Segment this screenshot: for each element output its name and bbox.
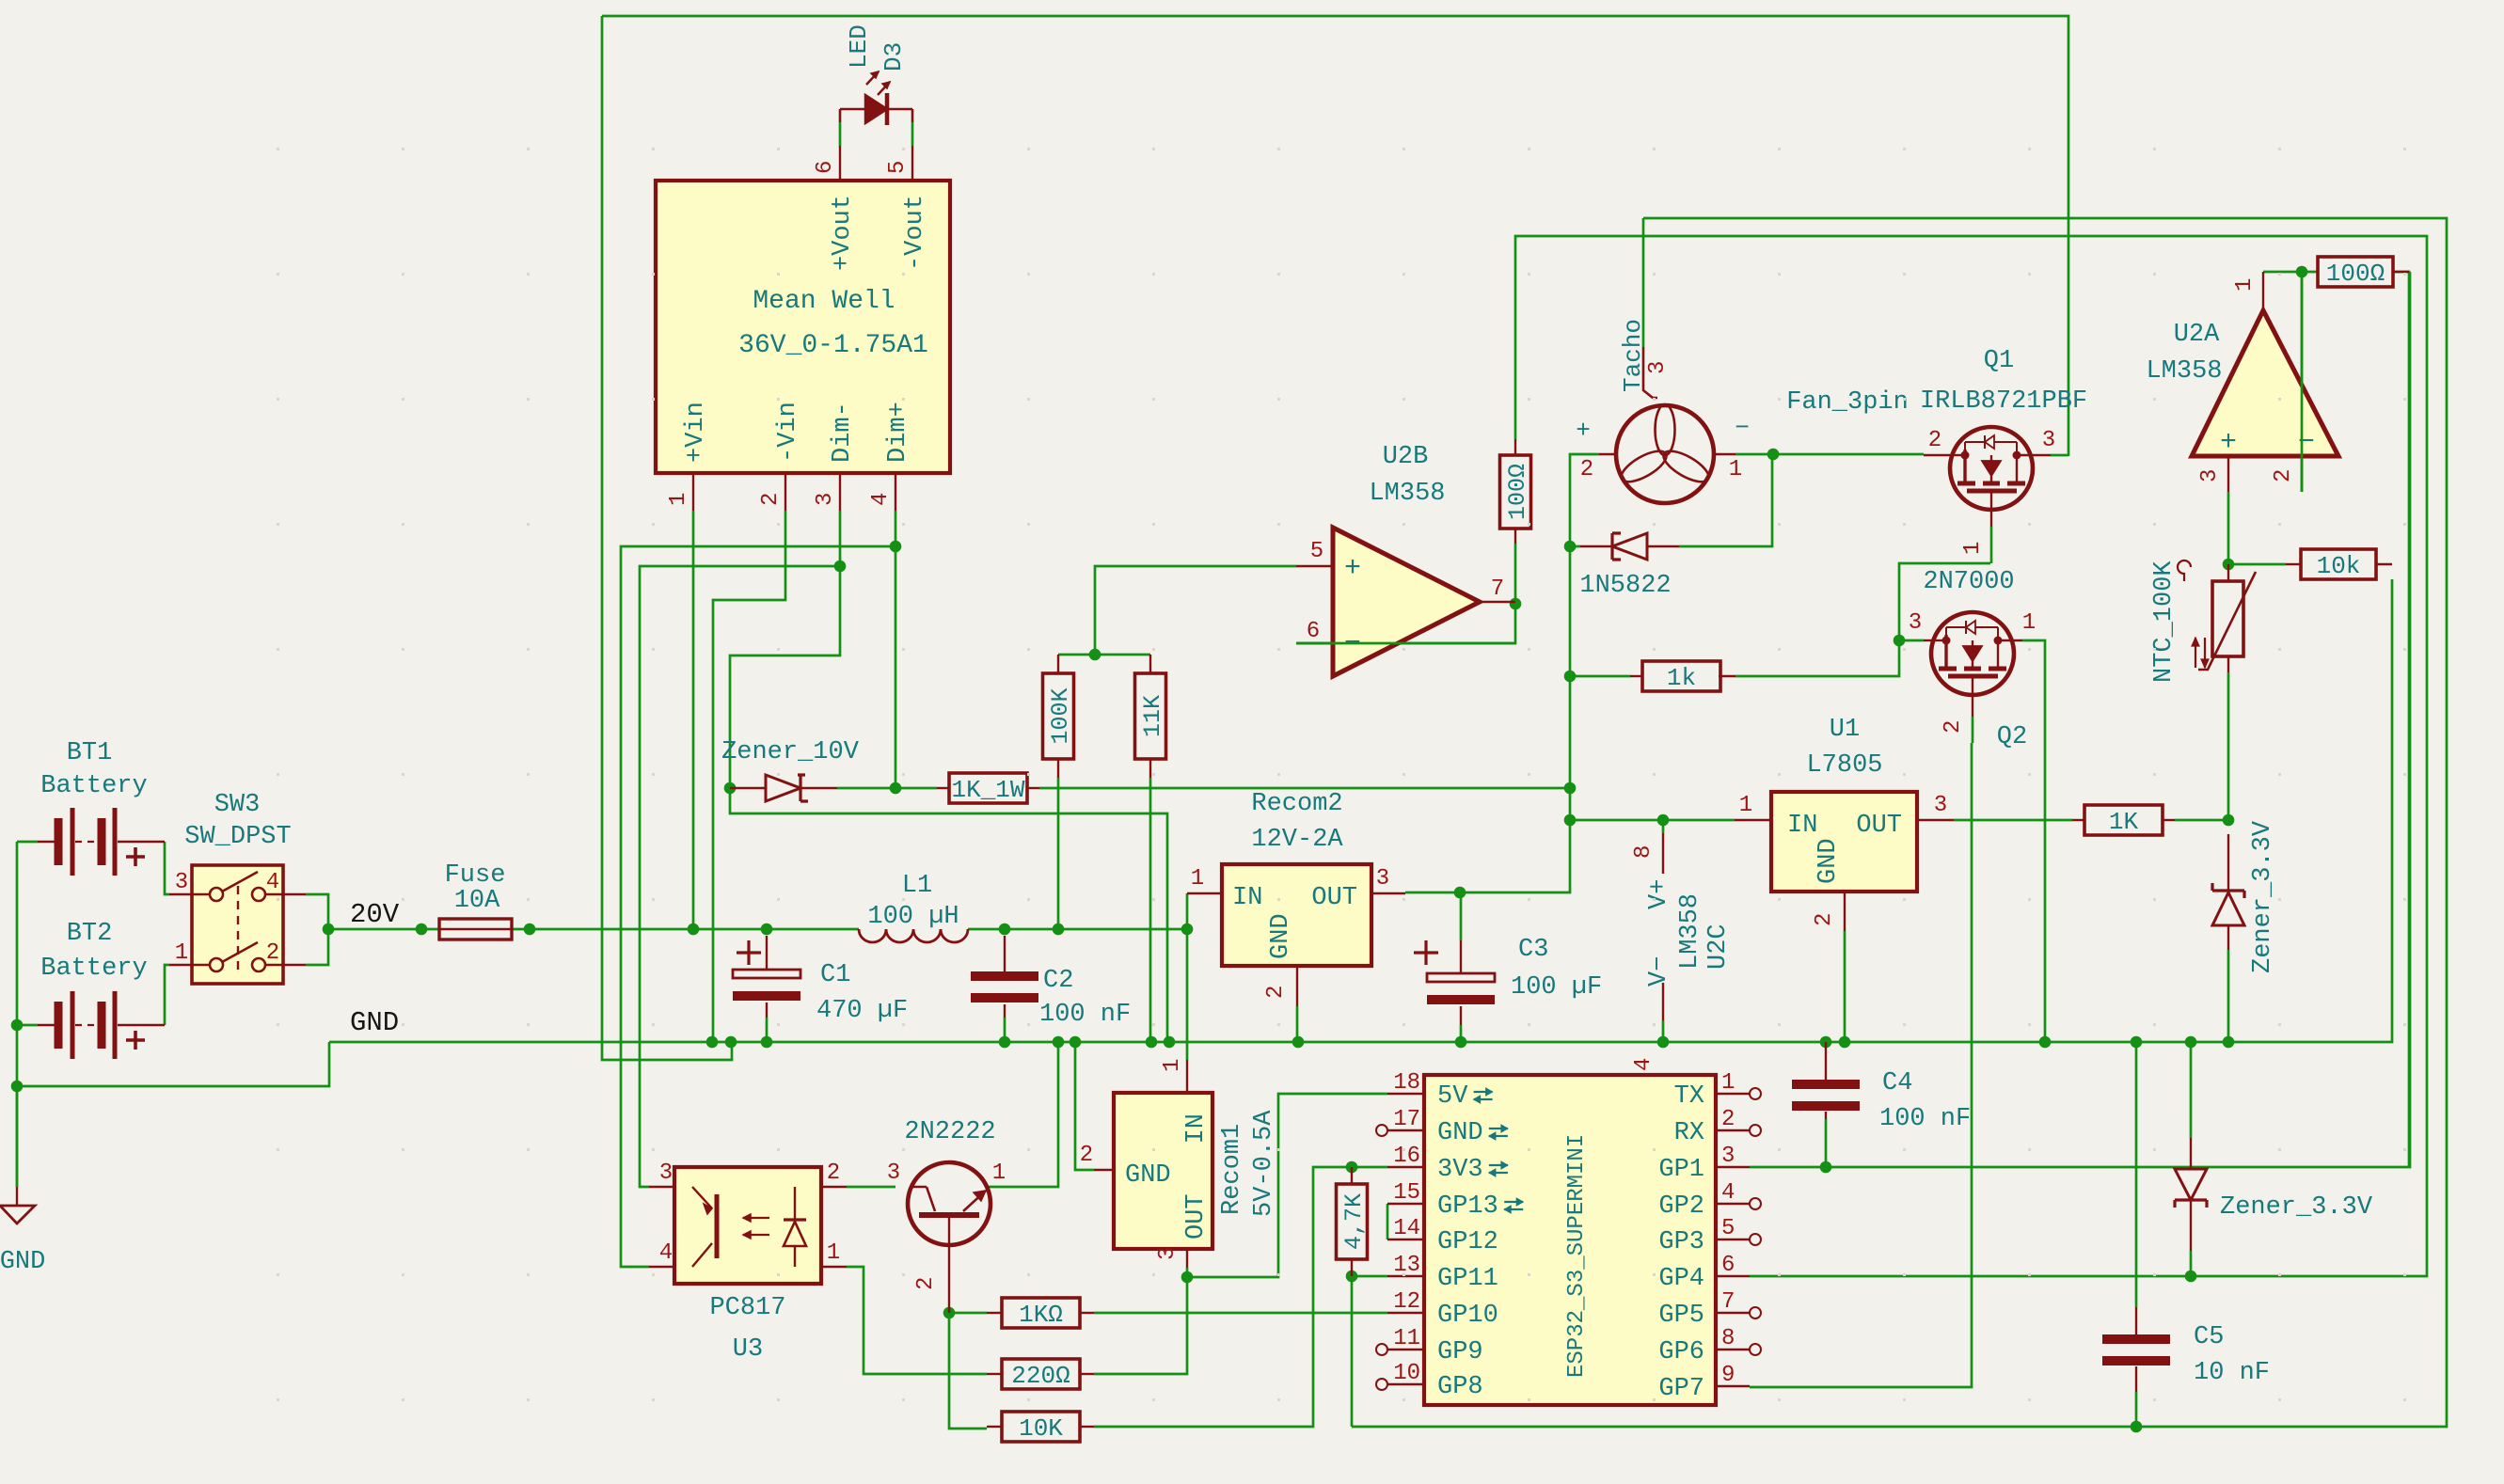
junction dots misc bbox=[11, 1019, 24, 1032]
svg-text:2: 2 bbox=[1580, 457, 1593, 482]
svg-text:4: 4 bbox=[659, 1240, 673, 1266]
resistor 1K_1W bbox=[937, 787, 949, 789]
capacitor C5 10nF bbox=[2135, 1307, 2137, 1339]
svg-text:16: 16 bbox=[1393, 1144, 1420, 1169]
svg-text:100Ω: 100Ω bbox=[1504, 464, 1531, 520]
wire U2A pin3 to NTC node bbox=[2227, 492, 2230, 564]
svg-text:Dim+: Dim+ bbox=[884, 402, 912, 463]
transistor Q2 2N7000 bbox=[1931, 612, 2014, 695]
DC-DC Recom2 12V-2A bbox=[1222, 864, 1371, 966]
svg-text:GND: GND bbox=[0, 1248, 45, 1276]
svg-text:220Ω: 220Ω bbox=[1011, 1362, 1070, 1390]
svg-text:Q2: Q2 bbox=[1997, 723, 2027, 751]
svg-text:12: 12 bbox=[1393, 1289, 1420, 1315]
svg-text:Zener_3.3V: Zener_3.3V bbox=[2220, 1193, 2373, 1222]
svg-text:GP13: GP13 bbox=[1437, 1192, 1498, 1221]
svg-text:9: 9 bbox=[1721, 1363, 1735, 1388]
svg-text:IRLB8721PBF: IRLB8721PBF bbox=[1920, 387, 2087, 416]
svg-text:10k: 10k bbox=[2317, 552, 2361, 580]
resistor 11K vertical bbox=[1149, 655, 1151, 673]
svg-text:7: 7 bbox=[1491, 576, 1504, 602]
svg-text:10A: 10A bbox=[454, 887, 500, 915]
wire U2B feedback overlay bbox=[1296, 642, 1515, 645]
wire switch to 20V node bbox=[306, 894, 328, 929]
wire BT1 to switch bbox=[17, 841, 38, 844]
wire zener3.3V #2 from GND bbox=[2190, 1042, 2193, 1138]
svg-text:3: 3 bbox=[887, 1160, 900, 1186]
wire Recom1 GND riser bbox=[1075, 1042, 1094, 1170]
DC-DC Recom1 5V-0.5A bbox=[1114, 1093, 1212, 1249]
wire C3 bottom bbox=[1460, 1025, 1463, 1042]
svg-text:ESP32_S3_SUPERMINI: ESP32_S3_SUPERMINI bbox=[1564, 1134, 1590, 1378]
svg-text:13: 13 bbox=[1393, 1253, 1420, 1278]
svg-text:U2C: U2C bbox=[1704, 924, 1733, 970]
svg-text:4: 4 bbox=[1721, 1180, 1735, 1206]
svg-text:6: 6 bbox=[1721, 1253, 1735, 1278]
voltage regulator U1 L7805 bbox=[1771, 792, 1917, 892]
svg-text:LM358: LM358 bbox=[2146, 357, 2222, 386]
svg-text:Tacho: Tacho bbox=[1619, 319, 1647, 392]
wire 1K_1W out to 12V rail bbox=[1039, 787, 1570, 790]
svg-text:8: 8 bbox=[1721, 1326, 1735, 1351]
svg-text:D3: D3 bbox=[880, 42, 908, 71]
svg-text:15: 15 bbox=[1393, 1180, 1420, 1206]
svg-text:4: 4 bbox=[266, 870, 279, 895]
svg-text:+Vin: +Vin bbox=[682, 402, 710, 463]
svg-text:3V3: 3V3 bbox=[1437, 1156, 1483, 1184]
optocoupler U3 PC817 bbox=[674, 1167, 821, 1284]
svg-text:Mean Well: Mean Well bbox=[753, 287, 895, 316]
svg-text:Zener_3.3V: Zener_3.3V bbox=[2249, 820, 2277, 973]
svg-text:100K: 100K bbox=[1047, 687, 1074, 744]
svg-text:3: 3 bbox=[2197, 469, 2223, 482]
svg-text:L1: L1 bbox=[902, 872, 932, 900]
svg-text:100 µF: 100 µF bbox=[1511, 973, 1602, 1002]
resistor 100K vertical bbox=[1057, 655, 1059, 673]
wire BT2 to switch bbox=[17, 1024, 38, 1027]
wire U2C V- stub bbox=[1662, 1020, 1665, 1042]
svg-text:2N7000: 2N7000 bbox=[1923, 568, 2014, 596]
svg-text:+: + bbox=[1576, 417, 1591, 445]
svg-text:GND: GND bbox=[1437, 1119, 1483, 1147]
svg-text:5: 5 bbox=[1721, 1216, 1735, 1241]
fan Fan_3pin bbox=[1616, 405, 1714, 503]
svg-text:14: 14 bbox=[1393, 1216, 1420, 1241]
wire NTC bottom node bbox=[2227, 672, 2230, 820]
wire NTC node to 10k bbox=[2228, 563, 2286, 566]
resistor 100 ohm U2B output vertical bbox=[1514, 529, 1516, 544]
wire 11K bottom to GND bbox=[1149, 778, 1152, 1042]
svg-text:2N2222: 2N2222 bbox=[904, 1118, 995, 1146]
svg-text:3: 3 bbox=[1934, 793, 1947, 818]
svg-text:PC817: PC817 bbox=[709, 1294, 785, 1322]
svg-text:U3: U3 bbox=[733, 1335, 763, 1364]
svg-text:GP12: GP12 bbox=[1437, 1228, 1498, 1256]
svg-text:-Vout: -Vout bbox=[901, 195, 929, 271]
svg-text:LM358: LM358 bbox=[1676, 893, 1704, 970]
svg-text:5: 5 bbox=[885, 161, 911, 174]
svg-text:2: 2 bbox=[913, 1277, 939, 1290]
zener diode Zener_10V bbox=[730, 787, 766, 790]
svg-text:BT2: BT2 bbox=[67, 920, 113, 948]
svg-text:1: 1 bbox=[1960, 542, 1986, 555]
svg-text:1K_1W: 1K_1W bbox=[951, 776, 1024, 804]
svg-text:GP11: GP11 bbox=[1437, 1265, 1498, 1293]
svg-text:GND: GND bbox=[1815, 838, 1843, 884]
svg-text:1: 1 bbox=[1739, 793, 1752, 818]
wire PC817 pin1 to 220ohm bbox=[847, 1267, 987, 1374]
battery BT2 bbox=[38, 1024, 55, 1027]
wire GND symbol stem bbox=[16, 1086, 19, 1187]
wire U2C V+ stub bbox=[1662, 820, 1665, 833]
wire PC817 pin2 to 2N2222 base... collector bbox=[847, 1186, 895, 1189]
svg-text:1N5822: 1N5822 bbox=[1579, 572, 1671, 600]
resistor 1k bbox=[1642, 661, 1720, 691]
svg-text:3: 3 bbox=[1721, 1144, 1735, 1169]
svg-text:TX: TX bbox=[1674, 1082, 1704, 1111]
svg-text:1: 1 bbox=[1721, 1070, 1735, 1096]
wire U2A feedback through symbol to pin2 bbox=[2301, 272, 2304, 492]
switch SW3 SW_DPST bbox=[192, 865, 283, 984]
resistor 1Kohm bbox=[987, 1312, 1002, 1314]
svg-text:3: 3 bbox=[1645, 361, 1671, 374]
wire 1k gate resistor net bbox=[1570, 675, 1630, 678]
wire 1N5822 cathode riser bbox=[1679, 454, 1772, 546]
wire 2N2222 emitter to GND riser bbox=[990, 1042, 1058, 1187]
svg-text:10: 10 bbox=[1393, 1361, 1420, 1386]
svg-text:GP4: GP4 bbox=[1658, 1265, 1704, 1293]
svg-text:3: 3 bbox=[2042, 428, 2055, 453]
svg-text:1K: 1K bbox=[2109, 808, 2139, 836]
svg-text:18: 18 bbox=[1393, 1070, 1420, 1096]
op-amp U2B LM358 bbox=[1333, 528, 1480, 676]
svg-text:100 µH: 100 µH bbox=[867, 903, 959, 931]
svg-text:6: 6 bbox=[813, 161, 838, 174]
svg-text:V−: V− bbox=[1645, 956, 1673, 987]
wire 100K bottom to 20V bbox=[1057, 778, 1060, 929]
svg-text:GP10: GP10 bbox=[1437, 1302, 1498, 1330]
wire C5 from GND bbox=[2135, 1042, 2138, 1307]
svg-text:NTC_100K: NTC_100K bbox=[2150, 560, 2179, 683]
svg-text:1: 1 bbox=[1729, 457, 1742, 482]
wire fan- junction to Q1 gate bbox=[1735, 453, 1924, 456]
svg-text:7: 7 bbox=[1721, 1289, 1735, 1315]
wire GP1 net bbox=[1750, 272, 2410, 1167]
svg-text:C1: C1 bbox=[820, 961, 850, 989]
wire Recom2 GND down bbox=[1296, 1006, 1299, 1042]
svg-text:GP2: GP2 bbox=[1658, 1192, 1704, 1221]
wire Q2 source down to GP7 bbox=[1750, 743, 1972, 1387]
svg-text:2: 2 bbox=[2271, 469, 2296, 482]
LED D3 bbox=[839, 109, 842, 122]
wire C4 bottom bbox=[1825, 1119, 1828, 1167]
svg-text:IN: IN bbox=[1787, 812, 1817, 840]
svg-text:1: 1 bbox=[175, 940, 188, 966]
wire 1N5822 anode lead bbox=[1570, 545, 1580, 548]
svg-text:1KΩ: 1KΩ bbox=[1019, 1301, 1063, 1329]
wire battery left vertical bbox=[16, 842, 19, 1187]
wire zener10V anode to GND return bbox=[730, 788, 1167, 1042]
thermistor NTC_100K bbox=[2212, 581, 2243, 656]
capacitor C1 470uF bbox=[766, 936, 768, 970]
svg-text:2: 2 bbox=[1928, 428, 1941, 453]
svg-text:2: 2 bbox=[1941, 720, 1966, 734]
svg-text:V+: V+ bbox=[1645, 879, 1673, 909]
wire 5V node to ESP32 pin18 bbox=[1187, 1094, 1387, 1277]
schottky diode 1N5822 bbox=[1612, 533, 1621, 560]
svg-text:1k: 1k bbox=[1667, 664, 1696, 692]
svg-text:1: 1 bbox=[1160, 1059, 1185, 1072]
wire fan+ to 12V rail bbox=[1405, 454, 1599, 892]
svg-text:OUT: OUT bbox=[1311, 884, 1357, 912]
svg-text:8: 8 bbox=[1631, 845, 1656, 859]
svg-text:L7805: L7805 bbox=[1806, 751, 1882, 780]
svg-text:10 nF: 10 nF bbox=[2194, 1359, 2270, 1387]
svg-text:IN: IN bbox=[1232, 884, 1262, 912]
svg-text:3: 3 bbox=[175, 870, 188, 895]
resistor 100 ohm U2A bbox=[2318, 257, 2393, 287]
wire U2B out 100ohm to GP4 riser bbox=[1515, 236, 2427, 1276]
svg-text:GP1: GP1 bbox=[1658, 1156, 1704, 1184]
wire Q2 drain right down to GND bbox=[2022, 640, 2045, 1042]
wire U2B feedback bbox=[1296, 604, 1515, 643]
svg-text:5: 5 bbox=[1310, 539, 1323, 564]
svg-text:U2A: U2A bbox=[2174, 321, 2220, 349]
svg-text:GND: GND bbox=[1267, 913, 1295, 959]
ESP32_S3_SUPERMINI module bbox=[1424, 1075, 1716, 1405]
wire 3V3 to pin16 bbox=[1352, 1166, 1387, 1169]
ground symbol GND bbox=[16, 1187, 18, 1206]
fuse 10A bbox=[421, 928, 439, 931]
svg-text:IN: IN bbox=[1182, 1113, 1211, 1144]
resistor 1K to NTC bbox=[2072, 819, 2084, 821]
svg-text:RX: RX bbox=[1674, 1119, 1704, 1147]
svg-text:2: 2 bbox=[827, 1160, 840, 1186]
wire top border net: Q1 source loop bbox=[602, 16, 2068, 456]
wire 20V bus bbox=[530, 928, 859, 931]
capacitor C2 100nF bbox=[1004, 936, 1006, 976]
wire 100ohm U2A to GP1 riser bbox=[2393, 272, 2409, 1167]
svg-text:Battery: Battery bbox=[40, 772, 147, 800]
svg-text:1: 1 bbox=[1191, 866, 1204, 892]
svg-text:1: 1 bbox=[992, 1160, 1006, 1186]
svg-text:11: 11 bbox=[1393, 1326, 1420, 1351]
svg-text:2: 2 bbox=[1080, 1143, 1093, 1168]
svg-text:Zener_10V: Zener_10V bbox=[721, 738, 860, 766]
svg-text:3: 3 bbox=[1376, 866, 1389, 892]
svg-text:4: 4 bbox=[1631, 1058, 1656, 1071]
wire Q2 gate stub link bbox=[1899, 639, 1924, 642]
svg-text:6: 6 bbox=[1307, 619, 1320, 644]
svg-text:C3: C3 bbox=[1518, 936, 1548, 964]
svg-text:100Ω: 100Ω bbox=[2326, 260, 2385, 288]
svg-text:Dim-: Dim- bbox=[829, 402, 857, 463]
wire MW pin1 +Vin down bbox=[692, 511, 695, 929]
inductor L1 100uH bbox=[859, 929, 968, 942]
svg-text:Recom2: Recom2 bbox=[1251, 790, 1342, 818]
svg-text:20V: 20V bbox=[350, 899, 400, 930]
battery BT1 bbox=[38, 841, 55, 844]
capacitor C3 100uF bbox=[1460, 940, 1462, 973]
svg-text:4: 4 bbox=[868, 493, 894, 506]
svg-text:36V_0-1.75A1: 36V_0-1.75A1 bbox=[738, 331, 928, 360]
wire L7805 gnd down bbox=[1844, 931, 1846, 1042]
svg-text:1: 1 bbox=[827, 1240, 840, 1266]
svg-text:OUT: OUT bbox=[1856, 812, 1902, 840]
svg-text:GND: GND bbox=[1125, 1161, 1171, 1190]
svg-text:3: 3 bbox=[659, 1160, 673, 1186]
wire tacho to GP11 riser bbox=[1352, 218, 2447, 1427]
svg-text:GP7: GP7 bbox=[1658, 1375, 1704, 1403]
svg-text:SW3: SW3 bbox=[214, 791, 261, 819]
svg-text:−: − bbox=[1735, 414, 1750, 442]
resistor 10k NTC divider bbox=[2301, 549, 2376, 579]
wire U2A output node bbox=[2263, 271, 2318, 274]
svg-text:2: 2 bbox=[266, 940, 279, 966]
resistor 10K bbox=[987, 1426, 1002, 1428]
svg-text:C2: C2 bbox=[1043, 967, 1073, 995]
svg-text:2: 2 bbox=[758, 493, 784, 506]
svg-text:1: 1 bbox=[666, 493, 691, 506]
wire 1Kohm right to GP10 bbox=[1094, 1312, 1387, 1315]
wire MW pin2 -Vin down bbox=[713, 511, 785, 1042]
svg-text:SW_DPST: SW_DPST bbox=[184, 823, 291, 851]
capacitor C4 100nF bbox=[1825, 1042, 1827, 1083]
svg-text:Recom1: Recom1 bbox=[1218, 1124, 1246, 1215]
resistor 220ohm bbox=[987, 1373, 1002, 1375]
wire GP13-GP12 jumper bbox=[1387, 1204, 1389, 1239]
wire GND bus bbox=[329, 579, 2392, 1042]
svg-text:GND: GND bbox=[350, 1007, 399, 1038]
svg-text:GP3: GP3 bbox=[1658, 1228, 1704, 1256]
svg-text:LED: LED bbox=[845, 24, 873, 69]
svg-text:Fuse: Fuse bbox=[445, 861, 506, 890]
svg-text:GP9: GP9 bbox=[1437, 1338, 1483, 1366]
op-amp power pins U2C LM358 bbox=[1662, 833, 1664, 874]
wire 4.7K bottom node to GP11 bbox=[1352, 1275, 1387, 1278]
svg-text:GP5: GP5 bbox=[1658, 1302, 1704, 1330]
svg-text:Q1: Q1 bbox=[1984, 347, 2014, 375]
wire U2A feedback overlay bbox=[2301, 272, 2304, 492]
junction dots 20V bus bbox=[524, 924, 536, 936]
svg-text:Fan_3pin: Fan_3pin bbox=[1786, 388, 1909, 417]
svg-text:17: 17 bbox=[1393, 1107, 1420, 1132]
svg-text:3: 3 bbox=[813, 493, 838, 506]
svg-text:12V-2A: 12V-2A bbox=[1251, 826, 1343, 854]
svg-text:Battery: Battery bbox=[40, 955, 147, 983]
svg-text:4,7K: 4,7K bbox=[1340, 1193, 1368, 1250]
svg-text:10K: 10K bbox=[1019, 1414, 1063, 1443]
wire 2N2222 base node to 1Kohm and 10K bbox=[949, 1312, 987, 1315]
zener diode Zener_3.3V on 5V bbox=[2227, 834, 2229, 891]
op-amp U2A LM358 bbox=[2192, 310, 2338, 456]
wire MW pin4 Dim+ down bbox=[621, 511, 895, 1267]
svg-text:OUT: OUT bbox=[1182, 1193, 1211, 1239]
svg-text:100 nF: 100 nF bbox=[1879, 1105, 1971, 1133]
svg-text:100 nF: 100 nF bbox=[1039, 1001, 1131, 1029]
svg-text:+: + bbox=[2220, 427, 2237, 459]
wire MW pin3 Dim- down bbox=[640, 511, 840, 1187]
svg-text:11K: 11K bbox=[1139, 695, 1166, 737]
wire zener3.3V #1 leads bbox=[2227, 950, 2230, 1042]
zener diode Zener_3.3V on GP4 bbox=[2190, 1138, 2192, 1169]
svg-text:2: 2 bbox=[1812, 913, 1837, 926]
svg-text:+: + bbox=[1344, 553, 1361, 585]
Mean Well 36V LED driver block bbox=[656, 181, 950, 473]
wire 12V to L7805 IN bbox=[1570, 819, 1735, 822]
grid dots bbox=[277, 148, 279, 150]
svg-text:1: 1 bbox=[2232, 278, 2258, 292]
svg-text:3: 3 bbox=[1909, 610, 1922, 636]
svg-text:-Vin: -Vin bbox=[774, 402, 802, 463]
svg-text:GP8: GP8 bbox=[1437, 1373, 1483, 1401]
svg-text:BT1: BT1 bbox=[67, 739, 113, 767]
svg-text:470 µF: 470 µF bbox=[816, 997, 908, 1025]
svg-text:1: 1 bbox=[2022, 610, 2036, 636]
svg-text:2: 2 bbox=[1721, 1107, 1735, 1132]
wire 220ohm right to 5V node bbox=[1094, 1277, 1187, 1374]
svg-text:LM358: LM358 bbox=[1369, 480, 1445, 508]
transistor Q1 IRLB8721PBF bbox=[1950, 427, 2033, 510]
svg-text:5V: 5V bbox=[1437, 1082, 1468, 1111]
svg-text:+Vout: +Vout bbox=[829, 195, 857, 271]
wire C3 top bbox=[1460, 892, 1463, 940]
wire divider 100K/11K top link bbox=[1058, 654, 1150, 656]
svg-text:5V-0.5A: 5V-0.5A bbox=[1250, 1110, 1278, 1217]
wire Recom2 IN from 20V bbox=[1186, 893, 1189, 1060]
wire 10K right to 3V3 riser bbox=[1094, 1167, 1352, 1427]
wire zener10V cathode to 1K_1W bbox=[837, 787, 937, 790]
transistor 2N2222 bbox=[908, 1162, 991, 1245]
svg-text:GP6: GP6 bbox=[1658, 1338, 1704, 1366]
resistor 4,7K vertical bbox=[1351, 1167, 1353, 1184]
svg-text:U1: U1 bbox=[1830, 716, 1860, 744]
wire L7805 out to 1K bbox=[1954, 819, 2072, 822]
svg-text:C4: C4 bbox=[1882, 1069, 1912, 1097]
svg-text:2: 2 bbox=[1263, 986, 1289, 999]
svg-text:3: 3 bbox=[1155, 1247, 1181, 1260]
svg-text:U2B: U2B bbox=[1383, 443, 1429, 471]
svg-text:C5: C5 bbox=[2194, 1323, 2224, 1351]
junction dots GND bus bbox=[706, 1036, 719, 1049]
